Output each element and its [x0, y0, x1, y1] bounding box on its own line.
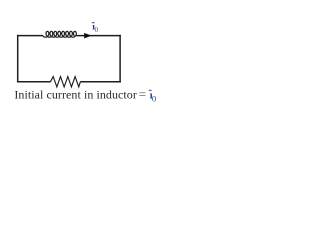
svg-text:=: =	[139, 87, 146, 102]
label i dot (blue fringe)	[93, 22, 95, 24]
svg-text:Initial current in inductor: Initial current in inductor	[14, 88, 137, 102]
resistor R (zigzag)	[51, 77, 81, 87]
inductor L (coil of 8 connected loops)	[43, 31, 77, 37]
label i dot (orange fringe)	[92, 22, 94, 24]
wire: right vertical side	[119, 35, 121, 83]
wire: bottom side, left segment to resistor	[17, 81, 51, 83]
current direction arrowhead	[85, 34, 91, 38]
wire: top side, right segment from inductor to corner	[76, 35, 120, 37]
wire: left vertical side	[17, 35, 19, 83]
caption: i dot (blue fringe)	[150, 90, 152, 92]
svg-text:0: 0	[95, 26, 99, 34]
wire: top side, left segment to inductor	[17, 35, 43, 37]
caption: i dot (orange fringe)	[149, 90, 151, 92]
svg-text:0: 0	[152, 93, 157, 103]
wire: bottom side, right segment from resistor	[80, 81, 121, 83]
